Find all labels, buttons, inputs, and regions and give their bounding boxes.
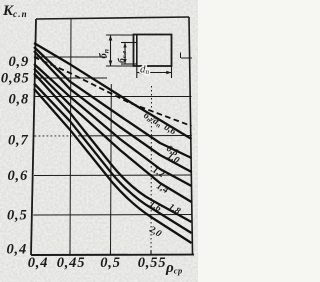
arrow b_p bottom bbox=[109, 61, 113, 67]
d_p extension lines bbox=[136, 66, 138, 78]
svg-text:0,7: 0,7 bbox=[8, 133, 29, 149]
curve b/d=1.2 bbox=[34, 64, 192, 186]
svg-text:0,4: 0,4 bbox=[28, 255, 49, 271]
arrow d_p left bbox=[137, 71, 142, 74]
grid horizontal 0.9 right tick bbox=[181, 57, 192, 59]
svg-text:0,5: 0,5 bbox=[7, 208, 28, 224]
svg-text:0,55: 0,55 bbox=[138, 255, 167, 271]
tick 0.5 on x-axis bbox=[110, 251, 112, 256]
frame: left axis bbox=[31, 19, 36, 255]
curve b/d=2.0 bbox=[34, 89, 192, 243]
svg-text:0,8: 0,8 bbox=[8, 92, 29, 108]
frame: right bbox=[189, 17, 193, 255]
inset: slot rectangle bbox=[106, 35, 172, 79]
arrow b_c.v bottom bbox=[123, 59, 126, 64]
grid horizontal 0.8 bbox=[35, 96, 192, 98]
grid vertical 0.55 (dotted) bbox=[150, 86, 153, 255]
d_p dimension line bbox=[137, 72, 172, 74]
grid vertical 0.5 bbox=[110, 84, 113, 255]
svg-text:0,6: 0,6 bbox=[7, 168, 28, 184]
frame: bottom axis bbox=[31, 254, 194, 256]
b_p extension lines bbox=[106, 34, 134, 36]
svg-text:0,5: 0,5 bbox=[100, 255, 121, 271]
grid horizontal 0.7 (left part dotted) bbox=[35, 135, 79, 137]
grid horizontal 0.9 (left part) bbox=[36, 56, 108, 58]
grid horizontal 0.6 bbox=[34, 174, 192, 177]
curve b/d=1.0 bbox=[34, 51, 192, 172]
b_sv dimension line bbox=[124, 43, 126, 65]
b_p dimension line bbox=[110, 35, 112, 66]
arrow b_p top bbox=[109, 35, 113, 41]
grid horizontal 0.85 (left part) bbox=[36, 77, 108, 79]
curve labels bbox=[141, 110, 182, 240]
frame: top bbox=[36, 17, 189, 19]
curve b/d=1.8 bbox=[34, 83, 192, 233]
tick 0.45 on x-axis bbox=[69, 251, 71, 256]
grid horizontal 0.7 bbox=[78, 135, 192, 137]
svg-text:0,9: 0,9 bbox=[8, 54, 29, 70]
inner left line bbox=[136, 35, 138, 67]
arrow d_p right bbox=[166, 71, 171, 74]
svg-text:0,4: 0,4 bbox=[6, 242, 27, 258]
curve dashed bbox=[34, 57, 192, 126]
arrow b_c.v top bbox=[123, 43, 126, 48]
b_sv extension lines bbox=[121, 42, 137, 44]
tick 0.55 on x-axis bbox=[150, 251, 152, 256]
grid vertical 0.45 bbox=[70, 19, 71, 255]
curves bbox=[34, 43, 192, 243]
svg-text:0,85: 0,85 bbox=[1, 71, 30, 87]
curve b/d=1.4 bbox=[34, 69, 192, 203]
svg-text:0,45: 0,45 bbox=[57, 255, 86, 271]
curve b/d=0.6 bbox=[34, 43, 192, 139]
curve b/d=0.8 bbox=[34, 47, 192, 158]
curve b/d=1.6 bbox=[34, 73, 192, 222]
grid horizontal 0.5 bbox=[33, 214, 192, 217]
